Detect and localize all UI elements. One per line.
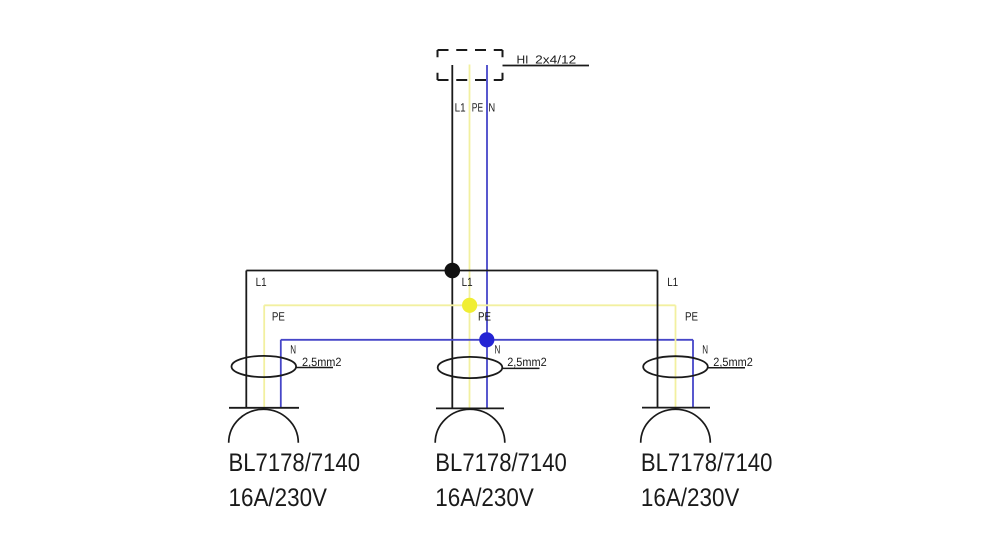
svg-text:L1: L1: [256, 275, 267, 289]
svg-text:N: N: [488, 101, 495, 115]
svg-text:PE: PE: [478, 310, 491, 324]
svg-text:2,5mm2: 2,5mm2: [713, 355, 753, 369]
svg-text:BL7178/7140: BL7178/7140: [435, 449, 567, 477]
svg-text:16A/230V: 16A/230V: [641, 484, 740, 512]
svg-text:2,5mm2: 2,5mm2: [507, 355, 547, 369]
svg-text:BL7178/7140: BL7178/7140: [641, 449, 773, 477]
svg-text:N: N: [702, 343, 708, 357]
svg-text:16A/230V: 16A/230V: [229, 484, 328, 512]
svg-text:PE: PE: [685, 310, 698, 324]
svg-text:HI: HI: [517, 53, 529, 66]
svg-text:PE: PE: [272, 310, 285, 324]
svg-text:2,5mm2: 2,5mm2: [302, 355, 342, 369]
svg-text:L1: L1: [455, 101, 466, 115]
svg-text:N: N: [495, 343, 501, 357]
svg-text:2x4/12: 2x4/12: [535, 53, 576, 66]
svg-text:BL7178/7140: BL7178/7140: [229, 449, 361, 477]
svg-text:L1: L1: [462, 275, 473, 289]
svg-text:L1: L1: [667, 275, 678, 289]
svg-text:16A/230V: 16A/230V: [435, 484, 534, 512]
svg-text:N: N: [290, 343, 296, 357]
svg-text:PE: PE: [472, 101, 483, 115]
